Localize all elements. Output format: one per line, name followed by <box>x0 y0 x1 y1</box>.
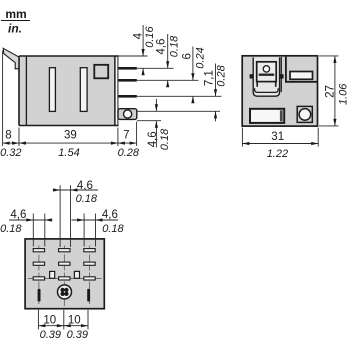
svg-text:4,6: 4,6 <box>10 209 26 221</box>
svg-text:27: 27 <box>325 85 337 98</box>
dimension 4,6 (0.18) middle top <box>53 180 98 247</box>
bottom view pins row 3 <box>33 277 95 280</box>
dimension 4,6 (0.18) right top <box>72 209 125 246</box>
svg-text:0.18: 0.18 <box>76 193 98 205</box>
svg-text:0.39: 0.39 <box>40 329 61 341</box>
bottom view row 4 blade right <box>87 289 90 302</box>
front view latch slider <box>257 62 277 87</box>
bottom view pins row 1 <box>33 249 95 252</box>
bottom view keying boss <box>58 285 72 299</box>
front view marking recess <box>250 109 284 123</box>
svg-text:0.16: 0.16 <box>144 26 156 48</box>
side view latch lever <box>3 48 19 69</box>
pin pitch extension lines right of side view <box>118 56 222 121</box>
svg-text:0.18: 0.18 <box>159 128 171 150</box>
svg-text:8: 8 <box>5 130 11 142</box>
svg-text:10: 10 <box>68 314 81 326</box>
legend mm/in <box>1 7 30 36</box>
svg-text:0.28: 0.28 <box>216 64 228 86</box>
svg-text:0.32: 0.32 <box>0 147 21 159</box>
side view slot 2 <box>80 68 87 112</box>
svg-text:0.18: 0.18 <box>0 223 22 235</box>
dimension 31 (1.22) <box>242 128 318 160</box>
front view latch housing <box>253 57 281 96</box>
svg-text:0.18: 0.18 <box>169 35 181 57</box>
dimension line bottom of side view <box>3 142 137 144</box>
svg-text:4,6: 4,6 <box>156 39 168 55</box>
dimension 4,6 (0.18) left top <box>0 209 52 246</box>
side view circle pin <box>118 109 137 120</box>
dimension 4,6 (0.18) pin1-pin2 <box>156 34 181 87</box>
svg-text:10: 10 <box>43 314 56 326</box>
svg-text:1.54: 1.54 <box>58 147 79 159</box>
side view pin 2 <box>118 79 137 82</box>
dimension 8 (0.32) extension lines <box>3 51 137 147</box>
svg-text:0.24: 0.24 <box>195 47 207 68</box>
svg-text:0.39: 0.39 <box>67 329 88 341</box>
bottom view center lines <box>28 246 102 307</box>
svg-text:4,6: 4,6 <box>147 131 159 147</box>
dimension 4 (0.16) <box>133 25 156 75</box>
side view pin 3 <box>118 95 137 98</box>
svg-text:1.22: 1.22 <box>267 148 288 160</box>
svg-text:31: 31 <box>271 131 284 143</box>
bottom view keyway rects <box>50 271 80 278</box>
dimension 6 (0.24) pin2-pin3 <box>182 47 207 104</box>
side view body <box>19 56 119 126</box>
front view test button <box>297 106 312 122</box>
svg-text:mm: mm <box>5 7 26 21</box>
svg-text:0.18: 0.18 <box>102 223 124 235</box>
front view top-right recess <box>286 57 318 82</box>
front view label slot <box>290 72 313 80</box>
side view pin 1 <box>118 67 137 70</box>
bottom view body <box>25 239 104 309</box>
front view body <box>242 56 317 126</box>
svg-text:0.28: 0.28 <box>118 147 140 159</box>
bottom view row 4 blade left <box>38 289 41 302</box>
dimension 10 10 (0.39 0.39) bottom <box>38 310 88 341</box>
front view latch side tabs <box>250 74 253 78</box>
svg-text:in.: in. <box>8 22 22 36</box>
dimension 7,1 (0.28) pin3-circle pin <box>204 64 228 122</box>
side view small square <box>94 65 108 79</box>
bottom view pins row 2 <box>33 262 95 265</box>
svg-text:4: 4 <box>133 32 145 39</box>
dimension 27 (1.06) <box>319 56 350 126</box>
svg-text:7,1: 7,1 <box>204 70 216 86</box>
svg-text:7: 7 <box>123 130 129 142</box>
dimension 4,6 (0.18) circle pin height <box>147 99 171 150</box>
side view slot 1 <box>49 68 55 112</box>
arrows bottom dims <box>3 142 137 145</box>
svg-text:39: 39 <box>64 130 77 142</box>
svg-text:4,6: 4,6 <box>77 180 93 192</box>
svg-text:1.06: 1.06 <box>338 83 350 105</box>
svg-text:6: 6 <box>182 53 194 59</box>
svg-text:4,6: 4,6 <box>102 209 118 221</box>
